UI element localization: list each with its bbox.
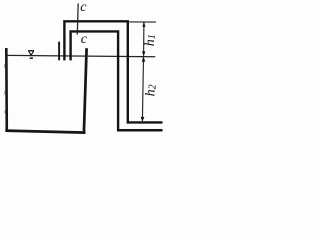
top dimension extension line <box>129 21 156 23</box>
inlet mouth extra wall (short line left of pipe inlet) <box>58 42 60 61</box>
water level symbol tick below apex <box>30 57 33 59</box>
label h2 (rotated) <box>144 84 159 96</box>
pipe inner wall: inlet right side, lower top run, left side of down leg, outlet bottom <box>71 31 163 130</box>
tank bottom wall <box>5 131 85 133</box>
dimension line h2 (vertical) <box>142 57 143 121</box>
water level symbol V outline <box>29 51 34 55</box>
scan speck on left wall (middle) <box>5 91 7 95</box>
tank left wall <box>5 48 8 131</box>
dimension line h1 (vertical) <box>143 22 145 56</box>
pipe outer wall: inlet left side, top run, right side of down leg, outlet top <box>64 21 162 122</box>
tank right wall <box>84 48 87 133</box>
water surface line (extends as dimension extension line) <box>7 55 155 56</box>
arrowhead h2 bottom (points down) <box>141 117 145 122</box>
section line c (thin vertical centerline at pipe top) <box>76 3 79 34</box>
scan speck on left wall (lower) <box>5 110 6 113</box>
svg-text:c: c <box>80 0 87 15</box>
svg-text:c: c <box>81 32 88 47</box>
label h1 (rotated) <box>143 34 158 46</box>
scan speck on left wall (upper) <box>4 64 6 68</box>
arrowhead h2 top (points up) <box>142 57 146 62</box>
arrowhead h1 top (points up) <box>142 22 145 27</box>
arrowhead h1 bottom (points down) <box>142 51 146 56</box>
water level symbol top bar <box>28 50 34 52</box>
